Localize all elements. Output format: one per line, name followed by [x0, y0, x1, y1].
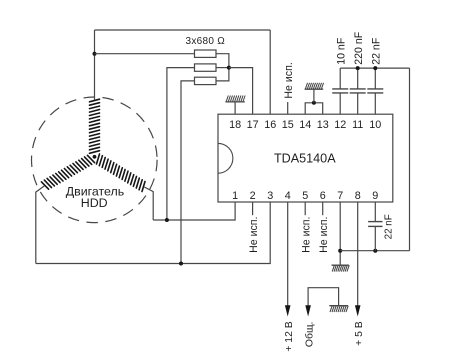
label 3x680 — [185, 36, 225, 47]
label Двигатель HDD — [66, 184, 124, 210]
wire pin 9 to C4 — [374, 202, 376, 222]
label pin 2 not used — [248, 217, 260, 253]
wire pin 3 to phase C — [36, 202, 270, 264]
svg-text:Не исп.: Не исп. — [248, 217, 260, 253]
svg-text:Не исп.: Не исп. — [318, 217, 330, 253]
svg-text:14: 14 — [299, 119, 311, 131]
svg-text:5: 5 — [302, 190, 308, 202]
label C4 22 nF — [384, 214, 395, 239]
svg-text:6: 6 — [320, 190, 326, 202]
capacitor C2 220nF — [350, 89, 366, 93]
label C3 22 nF — [371, 37, 383, 65]
svg-text:TDA5140A: TDA5140A — [274, 152, 336, 166]
label +5V — [354, 321, 365, 346]
svg-text:HDD: HDD — [81, 196, 108, 210]
resistor R2 — [195, 64, 217, 71]
wire C3 to bus — [374, 68, 376, 89]
svg-text:18: 18 — [229, 119, 241, 131]
wire star point to pin 17 — [229, 68, 253, 115]
capacitor C1 10nF — [332, 89, 348, 93]
ground at common — [329, 306, 348, 312]
wire R1 left to phase A — [95, 53, 195, 55]
node C4 bottom — [373, 249, 377, 253]
node resistor star point — [227, 66, 231, 70]
svg-text:2: 2 — [250, 190, 256, 202]
svg-text:7: 7 — [337, 190, 343, 202]
wire pin 18 stub — [234, 102, 236, 114]
wire common terminal — [308, 288, 339, 307]
label TDA5140A — [274, 152, 336, 166]
svg-text:22 nF: 22 nF — [384, 214, 395, 239]
U1 bottom pin numbers 1-9 — [232, 190, 378, 202]
svg-text:12: 12 — [334, 119, 346, 131]
wire R2 right — [216, 67, 229, 69]
svg-text:220 nF: 220 nF — [353, 31, 365, 65]
node phase B / R2 — [165, 218, 169, 222]
label pin 5 not used — [301, 217, 313, 253]
svg-text:Не исп.: Не исп. — [301, 217, 313, 253]
svg-text:15: 15 — [282, 119, 294, 131]
node bus at C3 — [373, 66, 377, 70]
svg-text:9: 9 — [372, 190, 378, 202]
motor winding L2 (left phase) — [41, 155, 94, 189]
resistor R3 — [195, 77, 217, 84]
wire R3 right — [216, 68, 229, 81]
node bracket center — [312, 101, 316, 105]
wire pin 5 stub — [304, 202, 306, 215]
svg-text:+ 12 В: + 12 В — [284, 321, 295, 351]
svg-text:10 nF: 10 nF — [336, 37, 348, 65]
wire pin 11 to C2 — [357, 93, 359, 114]
wire pin 1 to phase B — [153, 202, 235, 220]
motor M1 stator circle — [32, 97, 158, 223]
wire phase C from motor — [36, 186, 44, 264]
wire capacitor bus — [340, 67, 409, 69]
wire C1 to bus — [339, 68, 341, 89]
svg-text:Не исп.: Не исп. — [283, 62, 295, 98]
arrow common terminal — [305, 305, 311, 316]
svg-text:+ 5 В: + 5 В — [354, 321, 365, 346]
svg-text:3x680 Ω: 3x680 Ω — [185, 36, 225, 47]
motor star point node — [93, 155, 97, 159]
op-amp U1 TDA5140A body — [218, 114, 393, 202]
wire phase A up from motor — [94, 30, 96, 100]
svg-text:Общ.: Общ. — [304, 322, 316, 347]
wire pin7-pin9 horizontal — [340, 250, 409, 252]
wire ground drop to bracket — [313, 89, 315, 103]
capacitor C3 22nF — [367, 89, 383, 93]
svg-text:13: 13 — [317, 119, 329, 131]
wire bus right drop — [409, 68, 411, 251]
wire pin 6 stub — [322, 202, 324, 215]
motor winding L3 (right phase) — [97, 154, 146, 192]
svg-text:1: 1 — [232, 190, 238, 202]
label pin 6 not used — [318, 217, 330, 253]
label C1 10 nF — [336, 37, 348, 65]
ground at pin 7 — [332, 265, 350, 271]
node bus at C2 — [356, 66, 360, 70]
wire pin 15 stub — [287, 102, 289, 114]
resistor R1 — [195, 50, 217, 57]
arrow +5V terminal — [355, 305, 361, 316]
svg-text:10: 10 — [369, 119, 381, 131]
svg-text:16: 16 — [264, 119, 276, 131]
label Общ. — [304, 322, 316, 347]
wire phase B from motor — [144, 187, 153, 220]
svg-text:11: 11 — [352, 119, 363, 131]
node phase C / R3 — [179, 262, 183, 266]
label C2 220 nF — [353, 31, 365, 65]
node phase A / resistor tap — [93, 52, 97, 56]
wire pin 4 supply — [287, 202, 289, 307]
wire pin 2 stub — [252, 202, 254, 215]
wire R3 left — [181, 81, 195, 264]
wire R2 left — [167, 68, 195, 220]
wire pins 14-13 bracket — [305, 103, 323, 114]
U1 pin-1 notch — [218, 143, 233, 173]
svg-text:3: 3 — [267, 190, 273, 202]
svg-text:8: 8 — [355, 190, 361, 202]
wire pin 16 drop — [269, 30, 271, 114]
U1 top pin numbers 18-10 — [229, 119, 381, 131]
ground at pin 18 — [225, 96, 245, 102]
svg-text:17: 17 — [247, 119, 259, 131]
arrow +12V terminal — [285, 305, 291, 316]
wire top horizontal to pin 16 — [95, 29, 271, 31]
svg-text:22 nF: 22 nF — [371, 37, 383, 65]
node pin 7 junction — [338, 249, 342, 253]
ground at pins 14-13 — [305, 83, 324, 89]
capacitor C4 22nF — [368, 222, 382, 227]
wire pin 8 supply — [357, 202, 359, 307]
wire pin 12 to C1 — [339, 93, 341, 114]
wire pin 10 to C3 — [374, 93, 376, 114]
wire C2 to bus — [357, 68, 359, 89]
wire R1 right — [216, 54, 229, 68]
wire pin 7 down — [339, 202, 341, 265]
label +12V — [284, 321, 295, 351]
motor winding L1 (top phase) — [90, 99, 100, 153]
label pin 15 not used — [283, 62, 295, 98]
svg-text:4: 4 — [285, 190, 291, 202]
wire C4 to junction — [374, 226, 376, 250]
